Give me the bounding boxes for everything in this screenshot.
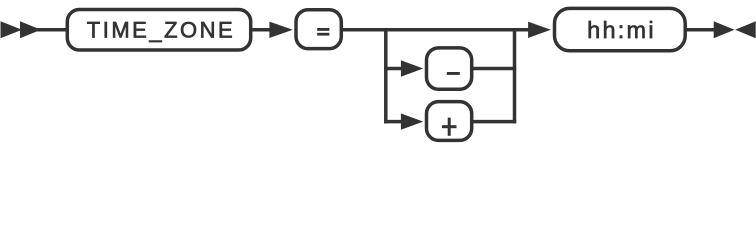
wire hh:mi to end bbox=[685, 28, 715, 32]
branch vertical right bbox=[513, 28, 517, 123]
wire plus to right vertical bbox=[472, 120, 517, 124]
terminal box = bbox=[296, 10, 341, 49]
arrowhead into plus bbox=[401, 113, 423, 129]
arrowhead into minus bbox=[401, 60, 423, 76]
wire minus to right vertical bbox=[472, 67, 517, 71]
arrowhead into = bbox=[269, 22, 292, 38]
label minus (drawn bar) bbox=[447, 72, 460, 75]
terminal box minus bbox=[427, 48, 472, 89]
branch vertical left bbox=[384, 28, 388, 123]
label = (drawn as bars) bbox=[317, 28, 329, 31]
label plus (drawn cross) bbox=[442, 125, 457, 128]
svg-text:hh:mi: hh:mi bbox=[587, 17, 656, 43]
terminal box hh:mi bbox=[555, 8, 686, 50]
wire to minus arrow bbox=[384, 67, 403, 71]
svg-text:TIME_ZONE: TIME_ZONE bbox=[87, 17, 235, 42]
terminal box TIME_ZONE bbox=[67, 10, 250, 51]
wire TIME_ZONE to arrow bbox=[251, 28, 271, 32]
wire start to TIME_ZONE bbox=[36, 28, 67, 32]
wire to plus arrow bbox=[384, 120, 403, 124]
main wire = to hh:mi arrow bbox=[341, 28, 528, 32]
start symbol (double arrowheads) bbox=[1, 21, 23, 38]
arrowhead into hh:mi bbox=[528, 22, 551, 38]
end symbol (facing arrowheads) bbox=[714, 21, 735, 38]
terminal box plus bbox=[427, 102, 472, 141]
